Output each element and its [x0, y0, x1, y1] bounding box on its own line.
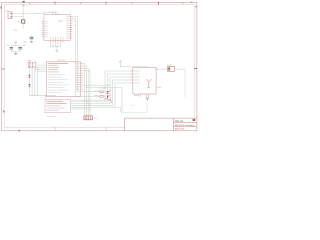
wire U4 out 5: [71, 83, 131, 107]
ground below C1 C2: [14, 53, 18, 55]
connector SV1: [84, 116, 93, 120]
IC1 right pins: [70, 17, 72, 38]
capacitor C1: [10, 47, 13, 49]
frame tick top 1: [54, 2, 56, 5]
ground cluster: [110, 101, 113, 103]
IC2 label right: [157, 86, 162, 89]
D4 arrows: [109, 94, 110, 95]
junction bus a2: [110, 85, 111, 86]
title block rev mark: [193, 119, 196, 121]
junction J: [86, 101, 87, 102]
U4 text rows: [47, 101, 67, 111]
title block outline: [125, 118, 197, 131]
junction G: [37, 95, 38, 96]
junction C: [23, 16, 24, 17]
wire column 1 with diodes: [28, 68, 30, 75]
wire U4 out 4: [71, 80, 131, 105]
capacitor C2 label: [23, 45, 26, 46]
frame row letter left: [3, 110, 5, 112]
junction E: [32, 95, 33, 96]
junction M: [120, 66, 121, 67]
IC1 top pins: [52, 13, 58, 15]
wire VCC3 to IC2 top: [121, 66, 148, 67]
frame row letter left top: [0, 6, 1, 8]
IC1 left pins: [42, 22, 44, 37]
wire U4 out 6: [71, 108, 91, 110]
frame tick bottom 1: [54, 127, 56, 131]
antenna E1 label: [167, 64, 172, 67]
capacitor C1 label: [6, 45, 9, 46]
frame digit top right: [191, 1, 193, 3]
wire bottom bus left: [29, 94, 56, 96]
diode D2: [28, 84, 30, 86]
junction A: [23, 13, 24, 14]
IC1 pin labels bottom: [50, 37, 63, 40]
connector X1: [8, 12, 12, 19]
module U3 body: [46, 62, 80, 97]
IC2 pin labels: [134, 71, 141, 84]
junction F: [34, 95, 35, 96]
wire column 4: [37, 68, 39, 96]
R1 value label: [17, 21, 20, 22]
capacitor C3: [31, 35, 33, 37]
wire net VIN top: [12, 13, 45, 15]
IC2 bottom pins: [140, 94, 142, 97]
wire U3 pin3 to SV1: [83, 68, 89, 116]
C3 label: [24, 41, 27, 42]
resistor R2: [100, 91, 103, 93]
D3 arrows: [109, 90, 110, 91]
supply VCC2 symbol: [15, 41, 17, 46]
wire column 2: [31, 68, 33, 96]
svg-text:GM-Tube: GM-Tube: [47, 116, 57, 118]
junction bus b2: [115, 107, 116, 108]
net value label top: [23, 1, 25, 3]
frame letter right: [195, 6, 196, 8]
junction N: [90, 108, 91, 109]
IC IC1 body: [44, 14, 70, 40]
wire U4 out 1: [71, 71, 131, 100]
wire U3 pin4 to SV1: [83, 71, 90, 116]
junction L: [90, 105, 91, 106]
IC2 right pin: [156, 68, 158, 70]
svg-text:RST: RST: [14, 30, 19, 32]
IC2 antenna symbol: [146, 79, 151, 88]
antenna E1: [168, 66, 175, 71]
svg-text:CNL-01: CNL-01: [175, 120, 184, 123]
IC1 outside right labels: [73, 20, 76, 23]
frame tick top 3: [158, 2, 160, 5]
wires header to U3: [35, 65, 47, 72]
U3 text rows lower: [48, 74, 69, 93]
wire net lower: [12, 16, 23, 18]
resistor R3: [100, 96, 103, 98]
cluster small marks: [105, 99, 107, 100]
supply VCC1 symbol: [22, 4, 25, 13]
junction I: [84, 100, 85, 101]
wire column 3: [34, 68, 36, 96]
U3 header text red: [48, 63, 68, 64]
IC2 label below: [134, 94, 139, 97]
U3 text rows upper: [48, 65, 60, 72]
resistor R1: [22, 14, 24, 20]
supply VCC3 symbol: [119, 60, 121, 66]
wire split: [11, 45, 20, 47]
junction bus b: [86, 87, 87, 88]
wire rejoin: [11, 49, 20, 54]
header JP1: [28, 62, 36, 68]
wire IC1 pin to LED row 1: [72, 17, 99, 92]
module U4 body: [45, 100, 71, 113]
wire IC1 bottom gnd bus: [51, 43, 61, 51]
U3 right pins: [81, 64, 83, 89]
capacitor C2: [18, 47, 22, 49]
IC1 inner smudge: [59, 20, 63, 22]
wire right long: [115, 103, 147, 112]
U3 right pin labels: [75, 63, 79, 89]
frame tick right: [194, 68, 197, 70]
junction B: [38, 13, 39, 14]
wire IC2 to antenna: [158, 68, 167, 70]
junction H: [45, 95, 46, 96]
frame outer border: [2, 2, 197, 131]
wire U3 pin1 to SV1: [83, 64, 85, 116]
ground below IC2: [146, 98, 149, 100]
IC IC2 body: [133, 68, 156, 94]
junction D: [56, 46, 57, 47]
wire IC1 pin to LED row 2: [72, 19, 99, 97]
wire U4 out 2: [71, 74, 131, 102]
wire antenna right: [175, 69, 186, 97]
diode D4: [107, 96, 109, 98]
wire drop to U4: [45, 95, 47, 99]
diode D3: [107, 91, 109, 93]
ground below IC1: [55, 50, 58, 52]
wire cluster join: [108, 98, 112, 102]
wire U3 pin2 to SV1: [83, 66, 87, 116]
frame tick top 2: [105, 2, 107, 5]
wire bus h b: [86, 87, 122, 112]
IC1 pin labels right: [66, 16, 70, 38]
wire bus h a: [85, 84, 110, 86]
frame inner border: [4, 4, 194, 127]
ground below C3: [30, 41, 33, 43]
frame tick bottom small: [18, 130, 20, 132]
wire U4 out 3: [71, 77, 131, 104]
diode D1: [28, 75, 30, 77]
junction bus a: [84, 85, 85, 86]
svg-text:SAT-4X-IC GeTemp: SAT-4X-IC GeTemp: [175, 124, 195, 127]
svg-text:Sheet 1/3: Sheet 1/3: [175, 128, 185, 131]
frame tick left: [2, 68, 5, 70]
IC1 pin labels left: [45, 21, 48, 37]
junction K: [88, 103, 89, 104]
frame column digits top: [29, 3, 183, 5]
IC1 bottom pins: [51, 40, 63, 42]
frame tick bottom 2: [105, 127, 107, 131]
cluster labels: [100, 87, 107, 90]
IC2 left pins: [130, 71, 132, 83]
